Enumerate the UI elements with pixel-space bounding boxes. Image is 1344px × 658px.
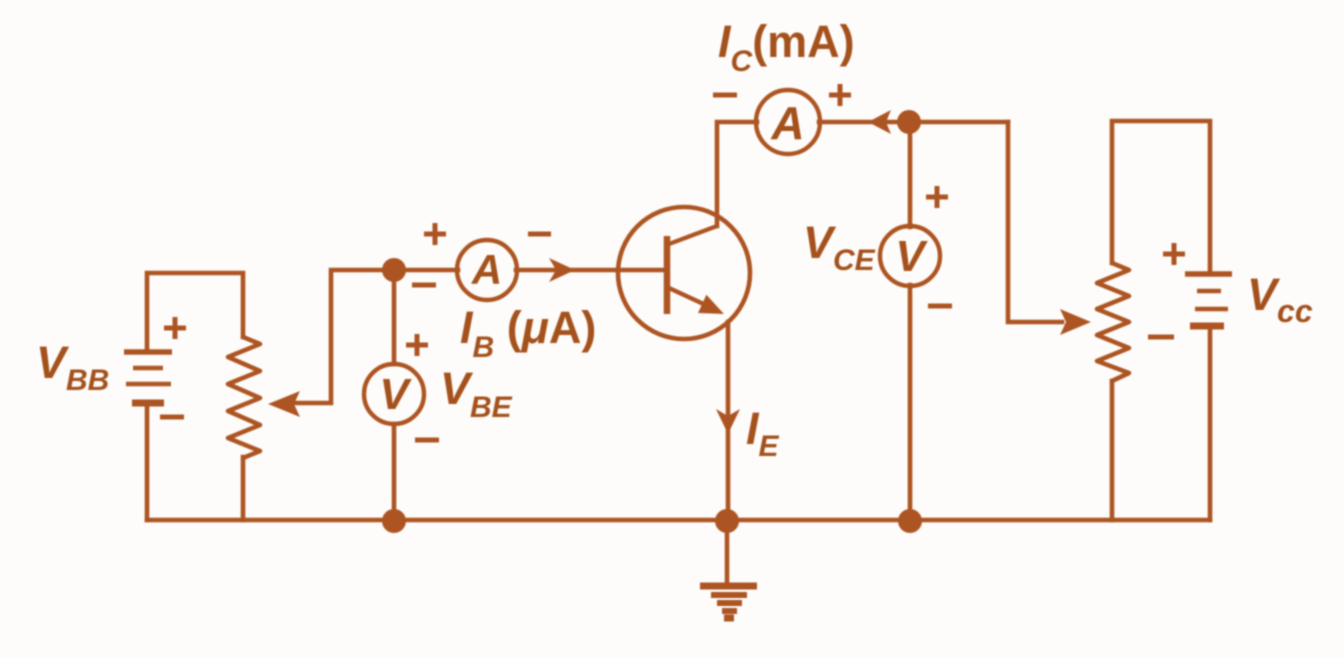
wire base node down to voltmeter V1 [392,270,397,364]
ground [700,586,757,618]
wire node down to voltmeter V2 [908,122,913,227]
node collector supply junction dot [897,110,921,134]
svg-text:IB (μA): IB (μA) [460,302,596,364]
arrowhead IE down [716,409,740,434]
arrowhead R2 wiper [1060,309,1091,335]
voltmeter V2 (VCE) [880,226,940,286]
arrowhead base current into transistor [549,258,575,282]
battery Vcc plates [1185,271,1232,277]
wire V1 down to bus [392,424,397,520]
svg-text:Vcc: Vcc [1247,269,1313,329]
wire node right and down to R2 wiper [1008,122,1062,322]
node V2 bottom junction dot [898,509,922,533]
wire base node to ammeter A1 [394,268,458,273]
minus sign A2 left [713,93,737,98]
minus sign Vcc [1148,335,1174,340]
wire ground stem [725,532,730,583]
svg-text:V: V [895,232,928,281]
arrowhead R1 wiper [268,391,300,417]
node V1 bottom junction dot [382,509,406,533]
transistor Q1 [618,207,750,339]
plus sign A1 left [424,223,446,245]
transistor Q1 emitter arrowhead [698,295,724,314]
svg-text:VCE: VCE [803,217,876,277]
minus sign V2 bottom [928,304,952,309]
wire Vcc bottom to bus [1208,327,1213,520]
ammeter A2 (IC) [756,90,820,154]
voltmeter V1 (VBE) [364,364,424,424]
wire R2 bottom to bus [1110,381,1115,520]
ammeter A1 (IB) [457,240,517,300]
wire bottom bus [147,518,1210,523]
resistor R2 potentiometer zigzag [1097,263,1129,381]
battery VBB plates [124,349,172,355]
wire A2 to collector supply node [819,120,1008,125]
plus sign A2 right [829,84,851,106]
svg-text:IE: IE [746,403,780,463]
minus sign below base wire [412,283,436,288]
wire R2 top to Vcc top [1112,121,1210,272]
wire collector up to top [717,122,757,226]
svg-text:V: V [379,370,412,419]
svg-text:VBE: VBE [440,363,513,424]
minus sign VBB [160,415,184,420]
plus sign V1 top [406,334,428,356]
wire V2 down to bus [908,285,913,520]
node emitter bottom junction dot [715,509,739,533]
plus sign V2 top [926,186,948,208]
wire emitter down to bus [726,322,731,520]
svg-text:A: A [471,246,502,293]
node base junction dot [382,258,406,282]
wire wiper R1 to base node [290,270,394,403]
wire VBB left leg top [147,273,243,352]
svg-text:VBB: VBB [36,337,109,397]
minus sign V1 bottom [415,438,439,443]
resistor R1 potentiometer zigzag [228,337,260,458]
svg-text:A: A [770,97,804,149]
arrowhead collector current into A2 [868,110,891,134]
svg-text:IC(mA): IC(mA) [718,16,855,78]
plus sign Vcc [1163,243,1185,265]
wire A1 to transistor base [516,268,667,273]
wire pot R1 bottom leg [241,457,246,520]
plus sign VBB [164,317,186,339]
wire VBB left leg bottom [145,403,150,520]
minus sign A1 right [528,232,551,237]
